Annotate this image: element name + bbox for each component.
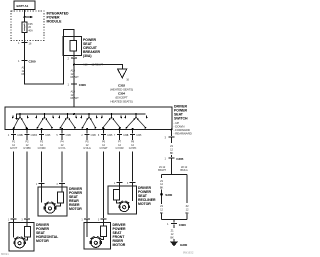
junction node to body splice branch: [73, 64, 75, 66]
main feed wire down: [73, 58, 75, 107]
wire terminal tick x=87.0: [81, 130, 96, 138]
wire label P4 12 GY/YL: [58, 140, 66, 151]
svg-text:RD/WT: RD/WT: [71, 96, 80, 100]
connector C305: [165, 137, 184, 161]
svg-text:BK: BK: [160, 186, 164, 190]
svg-text:C305: C305: [176, 157, 183, 161]
wire terminal tick x=103.5: [98, 130, 113, 138]
svg-text:RD/WT: RD/WT: [71, 75, 80, 79]
wire split to two ground paths: [162, 158, 188, 203]
wire run to motor x=41.5: [36, 134, 45, 187]
svg-text:MOTOR: MOTOR: [113, 243, 126, 247]
wire to circuit breaker feed: [25, 29, 75, 84]
wire terminal tick x=119.5: [114, 130, 129, 138]
in-line connector triangle C302/C304: [118, 69, 130, 81]
driver power seat switch box: [5, 105, 193, 136]
svg-text:GY/VT: GY/VT: [10, 146, 18, 150]
wire down from IPM: [24, 41, 26, 59]
node junction with feed arrow: [24, 16, 34, 19]
switch wiper pair 2: [36, 113, 55, 129]
svg-text:C305: C305: [91, 134, 97, 137]
svg-text:G300: G300: [180, 243, 188, 247]
connector C200: [18, 59, 36, 64]
svg-text:C305: C305: [107, 134, 113, 137]
wire terminal tick x=134.0: [127, 130, 142, 138]
ground merge junction: [162, 213, 188, 223]
driver power seat rear riser motor: [38, 187, 82, 216]
svg-text:BK/WT: BK/WT: [158, 168, 166, 172]
wire label P8 12 GY/PK: [129, 140, 137, 151]
switch wiper pair 1: [12, 113, 29, 129]
wire run to motor x=13.5: [8, 134, 17, 222]
driver power seat horizontal motor: [9, 223, 59, 252]
wire label P3 12 GY/RD: [38, 140, 46, 151]
svg-text:S300: S300: [165, 193, 172, 197]
ground G300: [170, 239, 188, 247]
svg-text:12 RD/WT: 12 RD/WT: [92, 63, 104, 67]
svg-text:MOTOR: MOTOR: [138, 202, 151, 206]
ground terminal node inside switch: [171, 129, 173, 131]
svg-text:40A: 40A: [28, 28, 33, 32]
connector C300: [167, 222, 186, 228]
power seat circuit breaker (30A): [63, 37, 100, 58]
wire label A10 12 RD/WT: [71, 69, 80, 80]
wire label Z1 12 BK (left lower): [157, 204, 166, 215]
svg-text:C305: C305: [66, 134, 72, 137]
svg-text:BK/LG: BK/LG: [180, 168, 187, 172]
svg-text:BATT A1: BATT A1: [17, 4, 29, 8]
svg-text:A10: A10: [83, 63, 88, 67]
wire run to motor x=134.0: [127, 134, 136, 186]
svg-text:C300: C300: [179, 223, 186, 227]
connector C306: [68, 83, 87, 88]
switch wiper pair 3: [59, 113, 77, 129]
switch wiper pair 4: [81, 113, 98, 129]
svg-text:(30A): (30A): [83, 54, 92, 58]
ground wire from switch: [165, 130, 175, 140]
wire terminal tick x=27.0: [21, 130, 36, 138]
svg-text:C305: C305: [136, 134, 142, 137]
switch terminal dots: [13, 128, 134, 130]
wire terminal tick x=13.5: [8, 130, 23, 138]
wire label Z1 12 BK (to ground): [170, 229, 174, 240]
wire terminal tick x=62.0: [56, 130, 71, 138]
svg-text:BK: BK: [170, 151, 174, 155]
switch wiper pair 5: [101, 113, 122, 129]
svg-text:8W1632: 8W1632: [183, 251, 194, 255]
internal B+ bus: [16, 113, 146, 119]
svg-text:C306: C306: [79, 83, 86, 87]
svg-text:C200: C200: [29, 60, 36, 64]
svg-text:GY/OR: GY/OR: [116, 146, 124, 150]
connector tick at IPM exit: [18, 41, 32, 45]
svg-text:GY/PK: GY/PK: [129, 146, 137, 150]
svg-text:MODULE: MODULE: [47, 20, 63, 24]
wire label P5 12 GY/LG: [83, 140, 91, 151]
svg-text:GY/YL: GY/YL: [58, 146, 66, 150]
svg-text:GY/WT: GY/WT: [99, 146, 108, 150]
splice node S300: [160, 190, 172, 220]
wire run to motor x=62.0: [56, 134, 65, 187]
wire label left branch pre-split: [158, 165, 166, 172]
svg-text:MOTOR: MOTOR: [69, 207, 82, 211]
svg-text:BK: BK: [170, 235, 174, 239]
node label C302 / C304: [110, 83, 133, 103]
svg-text:BK: BK: [160, 211, 164, 215]
wire label P7 12 GY/OR: [116, 140, 124, 151]
svg-text:C305: C305: [45, 134, 51, 137]
svg-text:- REARWARD: - REARWARD: [174, 132, 193, 136]
svg-text:GY/LG: GY/LG: [83, 146, 91, 150]
driver power seat recliner motor: [108, 186, 156, 214]
wire branch to C302/C304 with label A10 12 RD/WT: [74, 63, 123, 70]
wire battery to IPM: [24, 10, 26, 18]
svg-text:GY/RD: GY/RD: [38, 146, 46, 150]
svg-text:HEATED SEATS): HEATED SEATS): [110, 99, 132, 103]
wire run to motor x=87.0: [81, 134, 90, 222]
wire label right branch pre-split: [180, 165, 187, 172]
wire label A0 12 RD: [22, 66, 26, 77]
switch wiper pair 6: [125, 113, 148, 129]
wire label Z1 12 BK (left branch): [160, 179, 164, 190]
wire label P2 12 GY/BK: [23, 140, 31, 151]
wire terminal tick x=41.5: [36, 130, 51, 138]
wire label A10 12 RD/WT: [71, 90, 80, 101]
wire run to motor x=119.5: [114, 134, 123, 186]
wire label P1 12 GY/VT: [10, 140, 18, 151]
wire label P6 12 GY/WT: [99, 140, 108, 151]
wire run to motor x=27.0: [21, 134, 30, 222]
wire run to motor x=103.5: [98, 134, 107, 222]
wire label Z2 12 BK (right lower): [183, 204, 192, 215]
integrated power module (dashed box): [11, 11, 69, 41]
svg-text:MOTOR: MOTOR: [36, 239, 49, 243]
svg-text:GY/BK: GY/BK: [23, 146, 31, 150]
driver power seat front riser motor: [84, 223, 126, 250]
battery B1: [14, 1, 35, 10]
connector tick below breaker: [68, 56, 78, 61]
svg-text:80b91: 80b91: [1, 252, 9, 256]
wire label Z1 12 BK: [170, 144, 174, 155]
fuse F35: [22, 17, 33, 41]
